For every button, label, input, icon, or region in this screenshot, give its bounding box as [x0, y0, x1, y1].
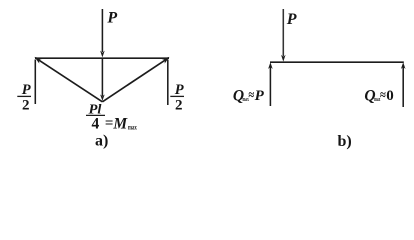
svg-text:≈: ≈ [248, 87, 254, 102]
svg-text:2: 2 [22, 98, 30, 114]
svg-text:M: M [112, 115, 128, 132]
svg-text:0: 0 [386, 88, 394, 104]
svg-text:a): a) [95, 133, 108, 150]
svg-text:4: 4 [92, 115, 100, 132]
svg-text:=: = [105, 115, 114, 131]
svg-text:P: P [286, 11, 297, 28]
svg-text:P: P [175, 82, 184, 98]
svg-text:max: max [128, 123, 137, 131]
svg-text:≈: ≈ [380, 87, 386, 102]
svg-text:P: P [255, 88, 265, 104]
svg-text:2: 2 [175, 98, 183, 114]
svg-text:P: P [106, 9, 117, 26]
svg-text:b): b) [338, 133, 352, 150]
svg-text:P: P [22, 82, 31, 98]
